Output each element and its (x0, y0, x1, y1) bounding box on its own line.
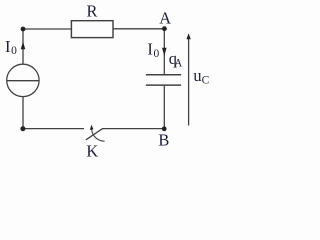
wire bottom-right horizontal (102, 128, 164, 130)
svg-text:uC: uC (193, 66, 209, 87)
arrowhead I0 left (up) (21, 42, 26, 50)
node junction dot bottom-left (20, 126, 25, 131)
arrowhead I0 right (down) (162, 48, 167, 56)
capacitor C bottom plate (146, 84, 181, 86)
wire right vertical lower (163, 85, 165, 129)
svg-text:R: R (87, 1, 98, 20)
svg-text:I0: I0 (147, 40, 159, 60)
arrowhead uC (up) (186, 33, 190, 39)
svg-text:qA: qA (169, 49, 183, 69)
current source I0 circle (7, 64, 39, 96)
switch K lever (86, 129, 102, 140)
switch K motion arc (92, 130, 104, 141)
arrowhead switch arc (up) (90, 125, 94, 130)
svg-text:K: K (86, 141, 98, 160)
capacitor C top plate (146, 74, 181, 76)
node B dot (162, 126, 167, 131)
voltage arrow uC line (188, 39, 190, 126)
svg-text:B: B (158, 130, 169, 149)
svg-text:I0: I0 (5, 37, 17, 57)
wire top-left horizontal (23, 28, 71, 30)
wire right vertical upper (163, 29, 165, 74)
wire top-right horizontal (113, 28, 164, 30)
node junction dot left (21, 27, 26, 32)
resistor R (71, 21, 113, 38)
current source bar (7, 80, 39, 82)
svg-text:A: A (159, 8, 171, 27)
node A dot (162, 26, 167, 31)
wire bottom-left horizontal (23, 128, 84, 130)
wire left vertical upper (22, 29, 24, 64)
wire left vertical lower (22, 97, 24, 129)
